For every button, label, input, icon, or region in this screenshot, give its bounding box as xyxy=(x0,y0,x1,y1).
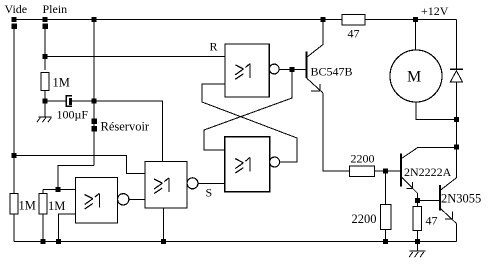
svg-text:100µF: 100µF xyxy=(57,108,89,122)
node Q2 emitter junction xyxy=(415,198,420,203)
transistor Q3 2N3055 xyxy=(440,178,456,242)
wire box1 lower input to ground rail xyxy=(59,214,76,242)
wire R from Plein column to latch gate 1 xyxy=(45,55,225,57)
svg-text:R: R xyxy=(210,40,218,54)
wire diode node down to collector node xyxy=(456,120,458,148)
wire emitter node down through 47 to ground rail xyxy=(416,200,418,241)
transistor Q1 BC547B xyxy=(307,20,324,94)
node Vide on rail xyxy=(12,17,17,22)
node U1 output junction xyxy=(290,67,295,72)
wire base node down through 2200 vertical to ground rail xyxy=(385,171,387,242)
wire Plein column down xyxy=(44,29,46,70)
svg-text:2200: 2200 xyxy=(352,212,377,226)
svg-text:+12V: +12V xyxy=(421,4,449,18)
node Reservoir column on rail xyxy=(92,17,97,22)
node Vide to W1 junction xyxy=(12,153,17,158)
wire 2200 to Q2 base xyxy=(375,170,401,172)
wire capacitor to reservoir column xyxy=(72,100,94,102)
svg-text:2N3055: 2N3055 xyxy=(441,192,481,206)
node R junction on Plein column xyxy=(43,54,48,59)
wire Vide column down xyxy=(13,29,15,194)
probe Vide electrode xyxy=(11,24,16,30)
probe Reservoir electrode 2 xyxy=(91,126,97,132)
gate U1 output bubble xyxy=(269,64,279,74)
probe Reservoir electrode 1 xyxy=(91,119,97,125)
wire cross-couple U2 out to U1 input xyxy=(202,84,297,162)
node Q2 collector junction xyxy=(454,145,459,150)
transistor Q2 2N2222A xyxy=(401,147,457,200)
svg-text:1M: 1M xyxy=(48,199,65,213)
node cap left xyxy=(43,99,48,104)
wire U3 output to U4 input xyxy=(129,198,145,200)
wire Reservoir column down xyxy=(93,20,95,166)
svg-text:1M: 1M xyxy=(19,199,36,213)
gate U3 output bubble xyxy=(118,194,129,205)
node cap right on reservoir column xyxy=(92,99,97,104)
node Q1 collector on rail xyxy=(321,17,326,22)
svg-text:Plein: Plein xyxy=(43,2,68,16)
resistor 1M (A, Vide) xyxy=(10,194,18,215)
resistor 47 (top rail) xyxy=(342,15,365,26)
wire S from U4 output to latch gate 2 xyxy=(198,182,225,184)
wire 1M-B top stub xyxy=(42,190,44,194)
motor M1 xyxy=(390,50,442,102)
svg-text:BC547B: BC547B xyxy=(311,65,353,79)
node 47 on ground rail xyxy=(415,239,420,244)
wire reservoir elbow to 1M-B node xyxy=(58,166,94,190)
diode D1 xyxy=(450,69,463,119)
resistor 2200 (base, horizontal) xyxy=(350,166,375,177)
wire ground rail xyxy=(14,241,457,243)
node U4 ground junction xyxy=(161,239,166,244)
wire Q1 emitter down to 2200 xyxy=(323,93,350,171)
svg-text:1M: 1M xyxy=(53,76,70,90)
node 2200 on ground rail xyxy=(383,239,388,244)
node Q2 base junction xyxy=(383,169,388,174)
wire 1M-A bottom to ground rail xyxy=(13,214,15,242)
wire rail to motor top xyxy=(415,20,417,52)
resistor 1M (Plein pull-down) xyxy=(41,73,49,91)
gate U2 output bubble xyxy=(270,157,280,167)
node Plein on rail xyxy=(43,17,48,22)
gate U4 output bubble xyxy=(187,178,198,189)
wire cap node to capacitor xyxy=(45,100,66,102)
gate U3 (box1) body xyxy=(76,178,118,224)
resistor 47 (vertical) xyxy=(413,207,422,231)
wire +12V top rail xyxy=(14,19,457,21)
wire U4 bottom pin to ground rail xyxy=(162,208,164,242)
wire emitter node to Q3 base xyxy=(417,199,440,201)
gate U4 (box2) body xyxy=(145,162,187,209)
probe Plein electrode xyxy=(42,24,48,30)
svg-text:2200: 2200 xyxy=(351,152,375,166)
wire cross-couple U1 out to U2 input xyxy=(204,71,292,150)
wire W1 Vide node to box2 upper input xyxy=(14,156,145,174)
ground symbol right xyxy=(409,244,425,258)
wire box1 upper input xyxy=(43,189,76,191)
resistor 1M (B) xyxy=(39,194,47,215)
gate U1 (latch top) body xyxy=(225,44,269,97)
resistor 2200 (vertical) xyxy=(381,205,392,230)
wire collector node to Q3 collector xyxy=(456,147,458,178)
svg-text:Réservoir: Réservoir xyxy=(101,120,150,134)
node motor/diode junction xyxy=(454,117,459,122)
wire 1M bottom to cap node xyxy=(44,91,46,104)
svg-text:47: 47 xyxy=(426,214,438,228)
svg-text:S: S xyxy=(206,186,213,200)
gate U2 (latch bottom) body xyxy=(225,137,270,192)
wire 1M-B bottom to ground rail xyxy=(42,214,44,242)
node box1 lower ground junction xyxy=(56,239,61,244)
node motor feed on rail xyxy=(413,17,418,22)
wire cap node to box2 top input xyxy=(94,101,162,162)
node on box1 upper input wire xyxy=(56,187,61,192)
svg-text:M: M xyxy=(407,69,421,86)
ground symbol left xyxy=(37,104,52,123)
svg-text:47: 47 xyxy=(348,27,360,41)
svg-text:Vide: Vide xyxy=(5,2,28,16)
svg-text:2N2222A: 2N2222A xyxy=(404,165,452,179)
wire motor bottom to diode node xyxy=(416,102,457,120)
wire U1 output to BC547B base xyxy=(279,68,305,70)
wire rail right end drop to diode cathode xyxy=(456,20,458,70)
capacitor 100uF xyxy=(66,96,72,107)
node 1M-B on ground rail xyxy=(41,239,46,244)
